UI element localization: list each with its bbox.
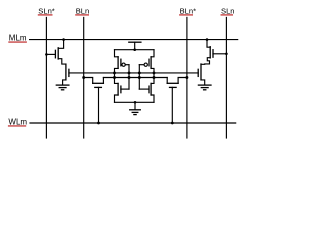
transistor M2 left compare NMOS (gate to cell node)	[63, 64, 69, 85]
node dot M1 drain on MLm	[62, 38, 65, 41]
transistor M1 left compare NMOS (gate to SLn*)	[46, 40, 66, 65]
node dot M6 on BLn*	[185, 76, 188, 79]
transistor P2 of latch (right PMOS)	[139, 50, 154, 84]
node dot M5 on BLn	[82, 76, 85, 79]
transistor N2 of latch (right NMOS)	[139, 83, 154, 102]
node dot M9 gate on SLn	[225, 53, 228, 56]
wire word line WLm	[30, 122, 236, 124]
node dot M1 gate on SLn*	[45, 53, 48, 56]
transistor N1 of latch (left NMOS)	[115, 83, 130, 102]
ground under M2	[56, 85, 69, 90]
node dot M5 gate on WLm	[97, 122, 100, 125]
wire VDD rail	[115, 49, 155, 51]
node dot row B left input col	[128, 76, 131, 79]
node dot VDD stem	[133, 48, 136, 51]
wire match line MLm	[30, 39, 238, 41]
node dot row A left input col	[128, 71, 131, 74]
power VDD symbol	[129, 42, 141, 50]
wire search line SLn	[225, 17, 227, 138]
transistor M10 right compare NMOS (gate to cell node)	[198, 64, 205, 85]
transistor P1 of latch (left PMOS)	[115, 50, 130, 84]
node dot row B right drain col	[153, 76, 156, 79]
wire left inverter input column	[128, 65, 130, 89]
node dot row A right drain col	[153, 71, 156, 74]
ground under latch	[130, 102, 141, 114]
svg-text:SLn: SLn	[221, 6, 235, 15]
svg-text:BLn*: BLn*	[180, 6, 197, 15]
node dot row A right input col	[138, 71, 141, 74]
node dot M6 gate on WLm	[171, 122, 174, 125]
node dot M9 drain on MLm	[206, 38, 209, 41]
wire bit line BLn	[83, 17, 85, 138]
wire right inverter input column	[138, 65, 140, 89]
svg-text:BLn: BLn	[76, 6, 90, 15]
transistor M9 right compare NMOS (gate to SLn)	[201, 40, 226, 65]
node dot row A left drain col	[113, 71, 116, 74]
wire latch source rail	[115, 101, 155, 103]
svg-text:SLn*: SLn*	[38, 6, 55, 15]
transistor M5 left access NMOS (gate down to WLm)	[84, 78, 104, 124]
wire search line SLn*	[45, 17, 47, 138]
ground under M10	[198, 85, 211, 90]
node row A (cell node bus upper)	[69, 72, 198, 74]
node dot row B right input col	[138, 76, 141, 79]
transistor M6 right access NMOS (gate down to WLm)	[167, 78, 187, 124]
svg-text:MLm: MLm	[9, 34, 27, 43]
node dot row B left drain col	[113, 76, 116, 79]
node row B (cell node bus lower)	[103, 77, 167, 79]
wire bit line BLn*	[186, 17, 188, 138]
node dot ground stem	[134, 101, 137, 104]
